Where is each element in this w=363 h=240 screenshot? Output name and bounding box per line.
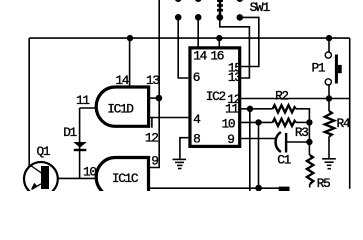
svg-text:14: 14 [193,49,207,64]
resistor R2 [273,105,296,112]
wire left rail down to Q1 collector [28,38,30,166]
wire pin11 branch down [249,109,251,191]
wire bus to IC2 pin 16 [218,38,220,46]
wire P1 to junction [328,85,330,98]
wire IC1D pin13 stub [149,97,160,99]
resistor R5 [307,155,313,184]
resistor R3 [273,119,296,126]
svg-text:13: 13 [146,73,159,88]
wire top supply bus [29,37,350,39]
wire R2 to R3 corner [296,109,310,123]
node SW1 contact 2 [195,14,202,21]
node bottom bar blob [279,187,290,191]
wire R5 bottom stub [309,184,311,188]
resistor R4 [325,111,334,136]
switch SW1 wiper arm [217,0,223,17]
svg-text:12: 12 [145,131,158,146]
transistor Q1 [24,162,58,196]
svg-text:9: 9 [151,153,158,168]
svg-text:D1: D1 [63,125,77,140]
switch SW1 contact 4 stub [236,0,243,2]
wire SW1 contact4 to IC2 pin 15 [240,17,259,66]
svg-text:10: 10 [83,165,96,180]
svg-text:P1: P1 [312,61,326,76]
ground under R4 [322,159,336,169]
node bottom bus junction [255,185,262,192]
wire IC1D pin12 stub down [151,118,153,128]
wire IC1D pin13 / IC1C pin9 vertical net [148,0,159,168]
node bus to IC2 pin16 [216,35,222,41]
pushbutton P1 [325,52,342,85]
wire IC1D output pin11 [80,107,97,109]
node R3/R2 junction [306,119,312,125]
wire IC2 pin8 to ground [180,138,188,159]
diode D1 [73,142,87,150]
wire IC2 pin11 row to R2 [241,108,272,110]
node SW1 contact 1 [175,14,182,21]
wire SW1 wiper to IC2 pin 13 [220,17,250,78]
svg-text:11: 11 [76,93,90,108]
node bus to P1 [326,35,332,41]
node pin10 branch [255,119,261,125]
svg-text:R4: R4 [337,116,351,131]
svg-text:13: 13 [228,70,241,85]
node bus to IC1 pin14 [127,35,133,41]
wire diode D1 vertical net [79,108,81,178]
wire IC1D pin12 to IC2 pin4 [149,117,189,119]
wire Q1 base to IC1C pin10 [49,177,96,179]
wire IC2 pin12 row to right rail [241,98,349,100]
svg-text:IC1C: IC1C [112,171,139,186]
svg-text:9: 9 [227,132,234,147]
capacitor C1 [276,132,310,153]
svg-text:R3: R3 [295,125,308,140]
wire bus to IC1D power pin 14 [129,38,131,86]
ground under IC2 pin 8 [173,159,187,168]
node IC1D pin13 junction [156,95,163,102]
svg-text:6: 6 [193,70,200,85]
wire SW1 contact1 to IC2 pin 6 [178,17,188,78]
svg-text:8: 8 [193,132,200,147]
svg-text:10: 10 [222,116,235,131]
wire IC2 pin9 row to C1 [241,138,276,140]
node SW1 wiper [216,14,223,21]
wire R3 to junction [296,121,310,123]
op-amp gate IC1C [96,158,148,197]
svg-text:SW1: SW1 [250,0,271,15]
node SW1 contact 4 [237,14,244,21]
node pin11 branch [247,106,253,112]
wire IC2 pin10 row to R3 [241,121,272,123]
wire bottom ground bus [150,187,290,189]
svg-text:R2: R2 [275,88,288,103]
svg-text:16: 16 [210,49,223,64]
wire R4 to ground [328,99,330,112]
svg-text:11: 11 [225,102,239,117]
svg-text:R5: R5 [317,176,330,191]
wire right rail [349,38,351,189]
node C1/R5 junction [306,139,312,145]
switch SW1 contact 2 stub [195,0,202,2]
wire junction down to C1 node [308,122,310,155]
node P1/R4 junction [326,95,332,101]
svg-text:IC2: IC2 [206,89,226,104]
wire SW1 contact2 to IC2 pin 14 [197,17,199,46]
switch SW1 contact 1 stub [175,0,182,2]
op-amp gate IC1D [96,87,148,126]
wire bus to P1 top contact [328,38,330,51]
svg-text:14: 14 [115,73,129,88]
svg-text:C1: C1 [277,153,291,168]
IC U2 box [190,48,240,147]
svg-text:IC1D: IC1D [107,102,134,117]
svg-text:Q1: Q1 [37,144,51,159]
wire pin10 branch down [258,122,260,188]
